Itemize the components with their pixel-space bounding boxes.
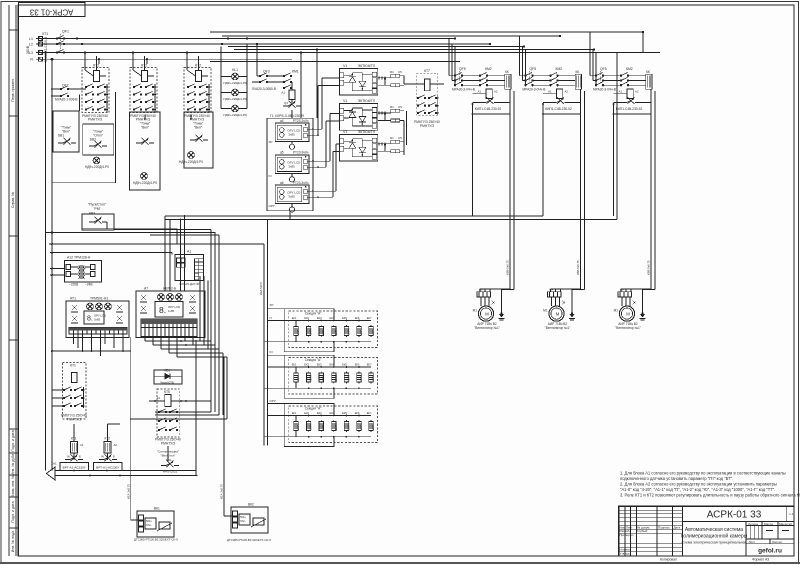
svg-text:V1: V1	[343, 64, 347, 68]
svg-text:2. Для блока А2 согласно его р: 2. Для блока А2 согласно его руководству…	[620, 482, 777, 487]
svg-text:а5: а5	[280, 151, 284, 155]
svg-text:Утверд.: Утверд.	[620, 551, 631, 555]
svg-text:ТРМ501-Н1: ТРМ501-Н1	[90, 297, 108, 301]
svg-text:Г1 ХХРБ-3-080-230-Я: Г1 ХХРБ-3-080-230-Я	[270, 114, 304, 118]
svg-text:Автоматическая система: Автоматическая система	[685, 527, 743, 533]
svg-text:КЕА 5х0.5: КЕА 5х0.5	[259, 282, 263, 295]
svg-text:"Вкл": "Вкл"	[141, 126, 150, 130]
svg-text:ВРТ-А1-АС230У: ВРТ-А1-АС230У	[96, 465, 119, 469]
svg-text:КЕА 3х0.75: КЕА 3х0.75	[126, 484, 130, 499]
svg-text:А1: А1	[281, 91, 285, 95]
svg-text:КТ2: КТ2	[93, 64, 99, 68]
svg-text:Инв. № подл.: Инв. № подл.	[11, 530, 15, 552]
svg-text:Взам. инв. №: Взам. инв. №	[11, 475, 15, 497]
svg-text:Лист: Лист	[749, 540, 756, 544]
svg-text:А7: А7	[144, 286, 148, 290]
svg-text:РМНТУ/3: РМНТУ/3	[420, 124, 434, 128]
svg-text:КИП1-С4В-230-92: КИП1-С4В-230-92	[475, 107, 502, 111]
svg-text:Дата: Дата	[674, 525, 681, 529]
svg-text:РМНТУ/3: РМНТУ/3	[161, 442, 175, 446]
svg-text:QF2: QF2	[62, 84, 69, 88]
svg-text:КТ1: КТ1	[70, 364, 76, 368]
svg-text:Формат А3: Формат А3	[752, 558, 769, 562]
svg-text:Q1: Q1	[284, 101, 288, 105]
svg-text:РТ23-3ч0ч: РТ23-3ч0ч	[293, 151, 309, 155]
svg-text:ОРУ: ОРУ	[270, 399, 276, 403]
svg-text:НРS-С021: НРS-С021	[163, 469, 178, 473]
svg-text:"Вкл": "Вкл"	[194, 126, 203, 130]
svg-text:НД9ч-220Д/4-Р0: НД9ч-220Д/4-Р0	[179, 160, 203, 164]
svg-text:А1: А1	[80, 443, 84, 447]
svg-text:Масса: Масса	[764, 522, 773, 526]
svg-text:~220В: ~220В	[69, 283, 78, 287]
svg-text:полимеризационной камеры: полимеризационной камеры	[681, 533, 748, 540]
svg-text:ЭКТЮ6/ТЛ: ЭКТЮ6/ТЛ	[358, 64, 376, 68]
svg-text:QF5: QF5	[459, 67, 466, 71]
svg-text:SVA20-3-0105-В: SVA20-3-0105-В	[44, 36, 48, 62]
svg-text:8.: 8.	[159, 305, 166, 315]
svg-text:3х85: 3х85	[94, 318, 101, 322]
svg-text:А1: А1	[187, 250, 191, 254]
svg-text:"РМ": "РМ"	[93, 207, 101, 211]
svg-text:АСРК-01 33: АСРК-01 33	[707, 510, 762, 521]
svg-text:R1: R1	[390, 70, 394, 74]
svg-text:gefol.ru: gefol.ru	[758, 548, 782, 555]
svg-text:НД9ч-220Д/4-Р0: НД9ч-220Д/4-Р0	[223, 113, 247, 117]
svg-text:L1: L1	[29, 37, 33, 41]
svg-text:КВВ-5х0.75: КВВ-5х0.75	[506, 260, 510, 275]
svg-text:АТ1: АТ1	[70, 297, 76, 301]
svg-text:К1: К1	[157, 396, 161, 400]
svg-text:VD1: VD1	[164, 369, 170, 373]
svg-text:Проверил: Проверил	[620, 533, 634, 537]
svg-text:QF3: QF3	[263, 70, 270, 74]
svg-text:ДТС065-РТ100.В3.320/ЕХТ-СК-Л: ДТС065-РТ100.В3.320/ЕХТ-СК-Л	[134, 538, 178, 542]
svg-text:SВ2: SВ2	[90, 138, 97, 142]
svg-text:380В: 380В	[26, 45, 30, 54]
svg-text:Инв. № дубл.: Инв. № дубл.	[11, 453, 15, 475]
svg-text:КМ1: КМ1	[292, 70, 299, 74]
svg-text:QF1: QF1	[62, 30, 69, 34]
svg-text:Копировал: Копировал	[660, 558, 677, 562]
svg-text:Литера: Литера	[748, 522, 758, 526]
svg-text:ИВЛ-2-Б: ИВЛ-2-Б	[163, 286, 177, 290]
svg-text:SVA20-3-0080-В: SVA20-3-0080-В	[252, 87, 276, 91]
svg-text:Б: Б	[79, 455, 81, 459]
svg-text:А12 ТРМ128-Н: А12 ТРМ128-Н	[67, 256, 91, 260]
svg-text:КЕА 3х0.75: КЕА 3х0.75	[220, 484, 224, 499]
svg-text:БУ0А5-Д27-5Н: БУ0А5-Д27-5Н	[180, 282, 201, 286]
svg-text:1. Для блока А1 согласно его р: 1. Для блока А1 согласно его руководству…	[620, 471, 786, 476]
svg-text:КК: КК	[505, 70, 509, 74]
svg-text:8.: 8.	[87, 316, 93, 323]
svg-text:L2: L2	[29, 43, 33, 47]
svg-text:А1: А1	[478, 90, 482, 94]
svg-text:~24В: ~24В	[85, 283, 93, 287]
svg-text:3. Реле КТ1 и КТ2 позволяют ре: 3. Реле КТ1 и КТ2 позволяют регулировать…	[620, 493, 800, 498]
svg-text:Листов: Листов	[772, 540, 782, 544]
svg-text:IN: IN	[269, 174, 272, 178]
svg-text:ВРТ-А1-АС230У: ВРТ-А1-АС230У	[63, 465, 86, 469]
svg-text:КТ7: КТ7	[424, 69, 430, 73]
svg-text:МУА20-1-006-В: МУА20-1-006-В	[55, 98, 78, 102]
svg-text:"Пуск/Стоп": "Пуск/Стоп"	[88, 203, 107, 207]
svg-text:А2: А2	[494, 90, 498, 94]
svg-text:"А1-0" код "4-20", "А1-1" код: "А1-0" код "4-20", "А1-1" код "П", "А1-2…	[620, 487, 775, 492]
svg-text:IN: IN	[67, 455, 70, 459]
svg-text:SА1: SА1	[166, 458, 172, 462]
svg-text:SВ3: SВ3	[89, 212, 96, 216]
svg-text:ДТС065-РТ100.В3.320/ЕХТ-СК-Л: ДТС065-РТ100.В3.320/ЕХТ-СК-Л	[227, 538, 271, 542]
svg-text:ВК2: ВК2	[248, 503, 254, 507]
svg-text:КТ5: КТ5	[164, 390, 170, 394]
svg-text:Перв. примен.: Перв. примен.	[11, 78, 15, 102]
svg-text:Подп. и дата: Подп. и дата	[11, 430, 15, 451]
svg-text:М1: М1	[473, 309, 478, 313]
svg-text:Схема электрическая принципиал: Схема электрическая принципиальная	[681, 541, 746, 545]
svg-text:Масштаб: Масштаб	[779, 522, 792, 526]
svg-text:МРА20-3-0Чч-В: МРА20-3-0Чч-В	[452, 88, 475, 92]
svg-text:подключенного датчика установи: подключенного датчика установить парамет…	[620, 476, 733, 481]
svg-text:РМНТУ/3: РМНТУ/3	[67, 418, 81, 422]
svg-text:Горбый: Горбый	[637, 529, 648, 533]
svg-text:IN: IN	[270, 350, 273, 354]
svg-text:ХА1: ХА1	[51, 462, 57, 466]
svg-text:ХР: ХР	[270, 303, 274, 307]
svg-text:1х85: 1х85	[168, 309, 175, 313]
svg-text:"Вкл/Откл": "Вкл/Откл"	[161, 454, 176, 458]
svg-text:SВ1: SВ1	[58, 134, 65, 138]
svg-text:"Вентилятор №1": "Вентилятор №1"	[474, 326, 500, 330]
svg-text:а6: а6	[280, 181, 284, 185]
svg-text:Подп. и дата: Подп. и дата	[11, 501, 15, 522]
svg-text:Б: Б	[113, 455, 115, 459]
svg-text:л.1: л.1	[789, 512, 794, 516]
svg-text:РТ23-3ч0ч: РТ23-3ч0ч	[293, 119, 309, 123]
svg-text:ШР: ШР	[479, 288, 483, 292]
svg-text:А2: А2	[114, 443, 118, 447]
svg-text:ХР: ХР	[269, 140, 273, 144]
svg-text:а4: а4	[280, 119, 284, 123]
svg-text:N: N	[30, 58, 33, 62]
svg-text:КМ2: КМ2	[485, 67, 492, 71]
svg-text:НД9ч-220Д/4-Р0: НД9ч-220Д/4-Р0	[85, 165, 109, 169]
svg-text:Чемч007Б: Чемч007Б	[160, 380, 174, 384]
svg-text:АСРК-01 33: АСРК-01 33	[29, 7, 73, 16]
svg-text:П: П	[270, 316, 272, 320]
svg-text:Справ. №: Справ. №	[11, 192, 15, 208]
svg-text:М: М	[485, 311, 489, 316]
svg-text:НД9ч-220Д/4-Р0: НД9ч-220Д/4-Р0	[223, 81, 247, 85]
svg-text:ОРУ: ОРУ	[269, 204, 275, 208]
svg-text:РТ23-3ч0ч: РТ23-3ч0ч	[293, 181, 309, 185]
svg-text:ВК1: ВК1	[154, 507, 160, 511]
svg-text:НД9ч-220Д/4-Р0: НД9ч-220Д/4-Р0	[133, 181, 157, 185]
svg-text:С5: С5	[398, 70, 402, 74]
svg-text:IN: IN	[101, 455, 104, 459]
svg-text:РМНТУ/3: РМНТУ/3	[88, 118, 102, 122]
svg-text:HL1: HL1	[232, 68, 238, 72]
svg-text:ХТ1: ХТ1	[42, 32, 48, 36]
svg-text:НД9ч-220Д/4-Р0: НД9ч-220Д/4-Р0	[223, 97, 247, 101]
svg-text:Подпись: Подпись	[658, 525, 670, 529]
